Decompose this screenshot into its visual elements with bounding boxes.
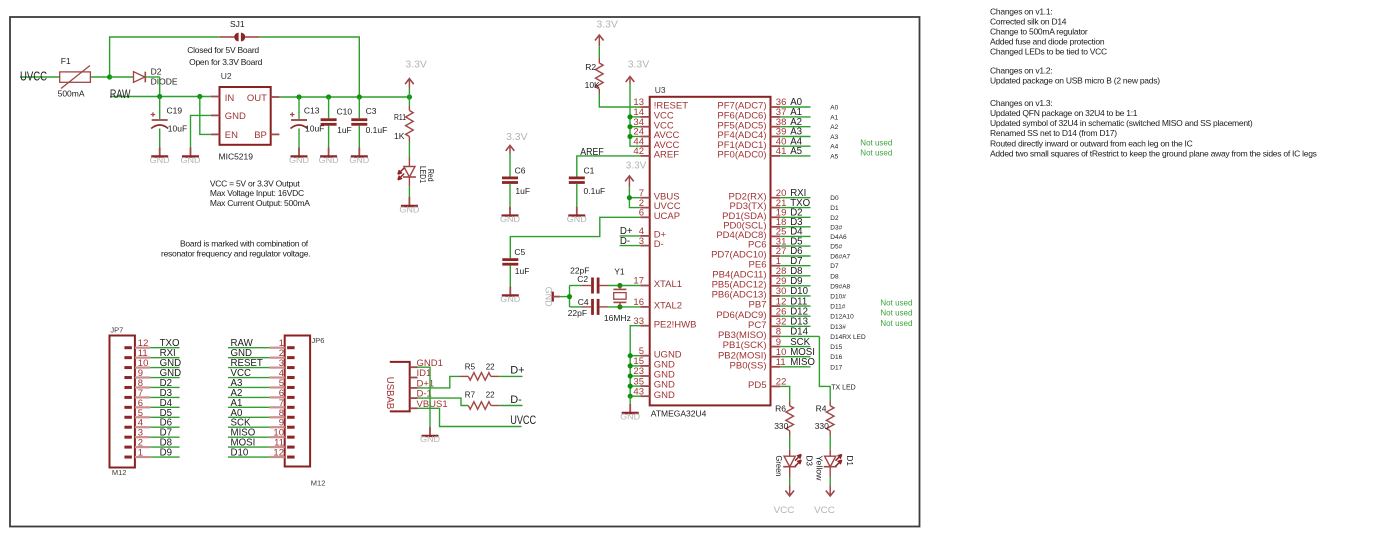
net label A1 on pin 37 — [780, 107, 810, 118]
svg-text:BP: BP — [254, 130, 267, 141]
JP7 pin 12 net TXO — [124, 338, 180, 349]
svg-text:Y1: Y1 — [614, 267, 625, 277]
note closed for 5V board — [187, 45, 262, 67]
svg-text:43: 43 — [633, 386, 644, 397]
label D5# — [830, 244, 842, 251]
changelog notes — [990, 6, 1317, 158]
supply 3.3V above R2 — [595, 19, 618, 58]
svg-text:GND: GND — [289, 156, 309, 165]
wire UVCC to SJ1 — [107, 37, 220, 80]
svg-text:UCAP: UCAP — [654, 211, 680, 222]
svg-text:D13#: D13# — [830, 324, 846, 331]
U3 pin 19 PD1(SDA) — [722, 208, 786, 222]
U3 pin 10 PB2(MOSI) — [718, 347, 786, 361]
junction AVCC pin 24 — [627, 134, 632, 139]
capacitor C5 — [502, 247, 529, 286]
svg-text:VCC = 5V or 3.3V Output: VCC = 5V or 3.3V Output — [210, 178, 301, 188]
ground below U3 — [620, 404, 640, 421]
svg-text:F1: F1 — [61, 56, 71, 66]
svg-text:A5: A5 — [830, 153, 838, 160]
USBAB pin D+1 — [410, 379, 435, 390]
junction VBUS pin 7 — [627, 195, 632, 200]
svg-text:GND: GND — [225, 111, 246, 122]
svg-text:D10#: D10# — [830, 293, 846, 300]
wire R2 to !RESET — [599, 94, 640, 107]
svg-text:JP6: JP6 — [312, 336, 325, 345]
net label MOSI on pin 10 — [780, 347, 815, 358]
wire D-1 to R7 — [418, 398, 469, 405]
resistor R5 — [460, 362, 499, 380]
svg-text:GND: GND — [500, 215, 520, 224]
JP7 pin 10 net GND — [124, 358, 181, 369]
svg-text:D11#: D11# — [830, 304, 845, 311]
svg-text:GND: GND — [500, 295, 520, 304]
U3 pin 13 !RESET — [633, 97, 688, 111]
svg-text:10uF: 10uF — [168, 124, 187, 134]
label D0 — [830, 195, 839, 202]
svg-text:TX LED: TX LED — [831, 384, 856, 391]
crystal Y1 — [604, 267, 631, 324]
svg-text:Max Voltage Input: 16VDC: Max Voltage Input: 16VDC — [210, 188, 304, 198]
pin OUT stub — [271, 96, 280, 98]
label D7 — [830, 263, 839, 270]
U3 pin 33 PE2!HWB — [633, 316, 696, 330]
label A4 — [830, 144, 838, 151]
junction R11 — [407, 94, 412, 99]
U3 pin 43 GND — [633, 386, 675, 400]
capacitor C19 — [151, 97, 187, 148]
svg-text:Yellow: Yellow — [815, 456, 825, 482]
capacitor C2 — [570, 265, 608, 293]
svg-text:PB0(SS): PB0(SS) — [730, 360, 767, 371]
net label D- at U3 — [620, 236, 641, 247]
LED D3 — [774, 436, 814, 486]
svg-text:1uF: 1uF — [337, 125, 352, 135]
supply 3.3V above R11 — [405, 59, 427, 98]
ground below U2 — [181, 148, 201, 165]
svg-text:Updated QFN package on 32U4 to: Updated QFN package on 32U4 to be 1:1 — [990, 108, 1138, 118]
svg-text:D2: D2 — [151, 66, 162, 76]
U3 pin 20 PD2(RX) — [728, 188, 786, 202]
junction GND pin 35 — [628, 384, 633, 389]
net label D- at USB — [499, 394, 522, 406]
label D9#A8 — [830, 283, 850, 290]
JP6 pin 9 net SCK — [228, 418, 295, 429]
wire VCC bus — [627, 84, 640, 147]
ground left of crystal caps — [543, 287, 560, 308]
svg-text:3.3V: 3.3V — [506, 131, 527, 143]
svg-text:VCC: VCC — [814, 505, 835, 516]
junction Y1 bottom — [617, 304, 622, 309]
svg-text:U3: U3 — [655, 85, 666, 95]
U3 pin 8 PB3(MISO) — [718, 327, 781, 341]
wire VBUS1 to UVCC — [418, 408, 522, 426]
diode D2 — [110, 66, 178, 86]
svg-text:U2: U2 — [221, 71, 232, 81]
svg-text:Routed directly inward or outw: Routed directly inward or outward from e… — [990, 138, 1193, 148]
svg-text:Not used: Not used — [880, 299, 912, 308]
svg-text:MISO: MISO — [790, 357, 815, 368]
svg-text:Max Current Output: 500mA: Max Current Output: 500mA — [210, 198, 310, 208]
pin IN stub — [211, 96, 220, 98]
label Not used — [860, 139, 892, 148]
label Not used — [880, 319, 912, 328]
net label D4 on pin 25 — [780, 227, 810, 238]
svg-text:AREF: AREF — [654, 150, 680, 161]
svg-text:330: 330 — [774, 421, 788, 431]
label D1 — [830, 205, 839, 212]
svg-text:C5: C5 — [514, 247, 525, 257]
svg-text:GND: GND — [543, 287, 553, 308]
svg-text:1K: 1K — [394, 131, 405, 141]
microcontroller U3 ATMEGA32U4 — [650, 85, 771, 419]
svg-text:Change to 500mA regulator: Change to 500mA regulator — [990, 27, 1088, 37]
net label SCK on pin 9 — [780, 337, 810, 348]
ground below C13 — [289, 148, 309, 165]
svg-text:XTAL1: XTAL1 — [654, 279, 682, 290]
svg-text:D12A10: D12A10 — [830, 314, 854, 321]
U3 pin 29 PB5(ADC12) — [712, 276, 787, 290]
svg-text:22pF: 22pF — [568, 308, 587, 318]
connector JP7 — [110, 326, 135, 477]
svg-text:D3: D3 — [804, 456, 814, 467]
net label D12 on pin 26 — [780, 306, 810, 317]
svg-text:GND: GND — [319, 156, 339, 165]
label A3 — [830, 134, 838, 141]
svg-text:PD5: PD5 — [748, 380, 766, 391]
svg-text:SJ1: SJ1 — [230, 19, 245, 29]
USBAB pin D-1 — [410, 389, 432, 400]
supply 3.3V above C6 — [506, 131, 528, 177]
svg-text:R5: R5 — [465, 362, 476, 371]
capacitor C13 — [290, 97, 324, 148]
svg-text:C10: C10 — [337, 107, 353, 117]
JP6 pin 1 net RAW — [228, 338, 295, 349]
wire D+1 to R5 — [418, 376, 461, 388]
svg-text:Added fuse and diode protectio: Added fuse and diode protection — [990, 37, 1105, 47]
U3 pin 12 PB7 — [749, 296, 787, 310]
svg-text:GND: GND — [181, 156, 201, 165]
JP6 pin 2 net GND — [228, 348, 295, 359]
ground below LED1 — [399, 197, 419, 214]
U3 pin 38 PF5(ADC5) — [717, 117, 786, 131]
svg-text:D2: D2 — [830, 215, 839, 222]
U3 pin 18 PD0(SCL) — [723, 217, 786, 231]
svg-text:0.1uF: 0.1uF — [584, 186, 606, 196]
wire XTAL1 net — [608, 283, 640, 288]
wire PD5 to R6 — [780, 386, 789, 401]
svg-text:GND: GND — [620, 412, 640, 421]
net label D2 on pin 19 — [780, 208, 810, 219]
net label A2 on pin 38 — [780, 117, 810, 128]
label D17 — [830, 364, 842, 371]
svg-text:C3: C3 — [366, 106, 377, 116]
svg-text:Changes on v1.2:: Changes on v1.2: — [990, 65, 1052, 75]
svg-text:42: 42 — [633, 146, 644, 157]
resistor R7 — [465, 391, 499, 410]
JP7 pin 9 net GND — [124, 368, 181, 379]
junction C10 — [326, 94, 331, 99]
JP7 pin 2 net D8 — [124, 438, 179, 449]
U3 pin 7 VBUS — [639, 188, 680, 202]
U3 pin 21 PD3(TX) — [730, 198, 787, 212]
svg-text:Closed for 5V Board: Closed for 5V Board — [187, 45, 259, 55]
net label A0 on pin 36 — [780, 97, 810, 108]
svg-text:EN: EN — [225, 130, 238, 141]
svg-text:Renamed SS net to D14 (from D1: Renamed SS net to D14 (from D17) — [990, 128, 1117, 138]
svg-text:D7: D7 — [830, 263, 839, 270]
svg-text:D3#: D3# — [830, 224, 842, 231]
schematic frame — [10, 17, 920, 527]
net label D3 on pin 18 — [780, 217, 810, 228]
svg-text:C13: C13 — [304, 105, 320, 115]
junction UVCC/F1/D2 — [107, 74, 112, 79]
connector JP6 — [285, 336, 326, 488]
svg-text:6: 6 — [639, 208, 644, 219]
U3 pin 34 VCC — [633, 117, 673, 131]
svg-text:3.3V: 3.3V — [405, 59, 427, 71]
svg-text:C4: C4 — [578, 297, 589, 307]
svg-text:M12: M12 — [112, 468, 127, 477]
svg-text:1: 1 — [138, 448, 143, 459]
svg-text:330: 330 — [815, 421, 829, 431]
JP7 pin 4 net D6 — [124, 418, 179, 429]
label D4A6 — [830, 234, 847, 241]
svg-text:D9#A8: D9#A8 — [830, 283, 850, 290]
U3 pin 3 D- — [639, 236, 664, 250]
svg-text:D15: D15 — [830, 344, 842, 351]
JP6 pin 3 net RESET — [228, 358, 295, 369]
net label D9 on pin 29 — [780, 276, 810, 287]
junction RAW/EN — [197, 94, 202, 99]
U3 pin 23 GND — [633, 366, 675, 380]
svg-text:Added two small squares of tRe: Added two small squares of tRestrict to … — [990, 148, 1317, 158]
JP6 pin 5 net A3 — [228, 378, 295, 389]
svg-text:GND: GND — [654, 390, 675, 401]
svg-text:A5: A5 — [790, 146, 802, 157]
svg-text:D8: D8 — [830, 273, 839, 280]
svg-text:D+: D+ — [510, 365, 524, 377]
svg-text:10K: 10K — [585, 80, 600, 90]
resistor R6 — [774, 401, 793, 436]
svg-text:XTAL2: XTAL2 — [654, 301, 682, 312]
supply VCC below D1 — [814, 485, 835, 516]
JP6 pin 7 net A1 — [228, 398, 295, 409]
wire RAW net — [110, 77, 211, 99]
U3 pin 41 PF0(ADC0) — [717, 146, 786, 160]
net label AREF — [580, 147, 603, 158]
svg-text:D4A6: D4A6 — [830, 234, 847, 241]
LED D1 — [815, 436, 855, 486]
svg-text:D14RX LED: D14RX LED — [830, 334, 866, 341]
pin GND stub — [211, 114, 220, 116]
junction GND pin 43 — [628, 394, 633, 399]
label D6#A7 — [830, 254, 850, 261]
svg-text:GND: GND — [349, 156, 369, 165]
svg-text:Not used: Not used — [860, 139, 892, 148]
JP7 pin 1 net D9 — [124, 448, 179, 459]
svg-text:D-: D- — [620, 236, 630, 247]
svg-text:Green: Green — [774, 456, 784, 477]
label Not used — [860, 148, 892, 157]
supply VCC below D3 — [774, 485, 795, 516]
resistor R11 — [394, 97, 413, 157]
label A2 — [830, 124, 838, 131]
svg-text:GND: GND — [150, 156, 170, 165]
net label A5 on pin 41 — [780, 146, 810, 157]
junction VCC pin 14 — [627, 114, 632, 119]
JP7 pin 3 net D7 — [124, 428, 179, 439]
svg-text:Changed LEDs to be tied to VCC: Changed LEDs to be tied to VCC — [990, 47, 1107, 57]
pin BP stub — [271, 133, 280, 135]
label A5 — [830, 153, 838, 160]
svg-text:C1: C1 — [584, 165, 595, 175]
svg-text:VCC: VCC — [774, 505, 795, 516]
junction UGND pin 5 — [628, 353, 633, 358]
capacitor C6 — [502, 165, 530, 206]
svg-text:Corrected silk on D14: Corrected silk on D14 — [990, 17, 1067, 27]
JP6 pin 11 net MOSI — [228, 438, 295, 449]
junction C13 — [296, 94, 301, 99]
supply 3.3V above VBUS — [625, 160, 646, 188]
svg-text:JP7: JP7 — [110, 326, 123, 335]
net label D14 on pin 8 — [780, 327, 819, 338]
resistor R4 — [815, 401, 834, 436]
svg-text:Red: Red — [426, 169, 436, 182]
ground below C3 — [349, 148, 369, 165]
U3 pin 28 PB4(ADC11) — [712, 266, 786, 280]
svg-text:DIODE: DIODE — [151, 76, 178, 86]
net label RXI on pin 20 — [780, 188, 810, 199]
net label A3 on pin 39 — [780, 127, 810, 138]
U3 pin 25 PD4(ADC8) — [716, 227, 786, 241]
JP7 pin 6 net D4 — [124, 398, 179, 409]
svg-text:ID1: ID1 — [417, 368, 432, 379]
net label D+ at USB — [499, 365, 524, 377]
U3 pin 11 PB0(SS) — [730, 357, 786, 371]
junction VCC pin 34 — [627, 124, 632, 129]
svg-text:Not used: Not used — [880, 309, 912, 318]
wire D14 to TX LED — [819, 336, 830, 401]
U3 pin 26 PD6(ADC9) — [716, 306, 786, 320]
JP7 pin 7 net D3 — [124, 388, 179, 399]
svg-text:Board is marked with combinati: Board is marked with combination of — [180, 239, 309, 249]
U3 pin 35 GND — [633, 376, 675, 390]
svg-text:A0: A0 — [830, 105, 838, 112]
wire U2 GND pin to ground — [191, 115, 211, 147]
svg-text:500mA: 500mA — [58, 88, 85, 98]
svg-text:22: 22 — [486, 362, 495, 371]
LED LED1 Red — [398, 157, 436, 197]
U3 pin 39 PF4(ADC4) — [717, 127, 786, 141]
svg-text:D9: D9 — [160, 448, 172, 459]
U3 pin 5 UGND — [639, 346, 682, 360]
svg-text:Not used: Not used — [860, 148, 892, 157]
svg-text:D16: D16 — [830, 354, 842, 361]
svg-text:33: 33 — [633, 316, 644, 327]
capacitor C10 — [321, 97, 353, 148]
svg-text:Updated package on USB micro B: Updated package on USB micro B (2 new pa… — [990, 75, 1160, 85]
net label UVCC at USB — [510, 413, 536, 427]
svg-text:R4: R4 — [816, 403, 827, 413]
svg-text:Changes on v1.1:: Changes on v1.1: — [990, 6, 1052, 16]
JP7 pin 5 net D5 — [124, 408, 179, 419]
JP6 pin 4 net VCC — [228, 368, 295, 379]
U3 pin 9 PB1(SCK) — [723, 337, 781, 351]
net label D13 on pin 32 — [780, 317, 810, 328]
label Not used — [880, 309, 912, 318]
net label D7 on pin 1 — [780, 256, 810, 267]
ground below C6 — [500, 207, 520, 224]
svg-text:Open for 3.3V Board: Open for 3.3V Board — [189, 57, 263, 67]
junction GND pin 23 — [628, 373, 633, 378]
label D10# — [830, 293, 846, 300]
fuse F1 — [58, 56, 110, 99]
JP6 pin 8 net A0 — [228, 408, 295, 419]
svg-text:Changes on v1.3:: Changes on v1.3: — [990, 98, 1052, 108]
net label TXO on pin 21 — [780, 198, 810, 209]
label D13# — [830, 324, 846, 331]
wire crystal cap ground bus — [560, 286, 582, 307]
svg-text:A3: A3 — [830, 134, 838, 141]
net label UVCC — [20, 68, 60, 83]
U3 pin 31 PC6 — [748, 236, 786, 250]
net label D11 on pin 12 — [780, 296, 810, 307]
svg-text:A2: A2 — [830, 124, 838, 131]
ground below C1 — [567, 207, 587, 224]
svg-text:16: 16 — [633, 297, 644, 308]
JP7 pin 8 net D2 — [124, 378, 179, 389]
capacitor C1 — [569, 165, 605, 206]
JP6 pin 6 net A2 — [228, 388, 295, 399]
svg-text:D6#A7: D6#A7 — [830, 254, 850, 261]
svg-text:D-: D- — [654, 239, 664, 250]
U3 pin 37 PF6(ADC6) — [717, 107, 786, 121]
resistor R2 — [585, 58, 604, 94]
svg-text:Not used: Not used — [880, 319, 912, 328]
wire EN to RAW — [200, 97, 211, 135]
note regulator output — [210, 178, 310, 208]
pin EN stub — [211, 133, 220, 135]
svg-text:A1: A1 — [830, 114, 838, 121]
USB connector USBAB — [384, 358, 448, 412]
svg-text:12: 12 — [273, 448, 284, 459]
svg-text:GND: GND — [567, 215, 587, 224]
label D8 — [830, 273, 839, 280]
U3 pin 1 PE6 — [749, 256, 782, 270]
USBAB pin VBUS1 — [410, 399, 448, 410]
svg-text:resonator frequency and regula: resonator frequency and regulator voltag… — [161, 249, 310, 259]
svg-text:ATMEGA32U4: ATMEGA32U4 — [651, 409, 707, 419]
svg-text:3.3V: 3.3V — [626, 160, 647, 172]
ground below C10 — [319, 148, 339, 165]
junction GND pin 15 — [628, 363, 633, 368]
svg-text:PE2!HWB: PE2!HWB — [654, 319, 697, 330]
ground below USB — [420, 427, 440, 444]
U3 pin 36 PF7(ADC7) — [717, 97, 786, 111]
svg-text:D0: D0 — [830, 195, 839, 202]
net label MISO on pin 11 — [780, 357, 815, 368]
ground below C5 — [500, 287, 520, 304]
svg-text:IN: IN — [225, 93, 235, 104]
U3 pin 2 UVCC — [639, 198, 681, 212]
label D2 — [830, 215, 839, 222]
U3 pin 15 GND — [633, 356, 675, 370]
U3 pin 14 VCC — [633, 107, 673, 121]
svg-text:3.3V: 3.3V — [628, 59, 650, 71]
voltage regulator U2 — [211, 71, 280, 162]
U3 pin 16 XTAL2 — [633, 297, 682, 311]
